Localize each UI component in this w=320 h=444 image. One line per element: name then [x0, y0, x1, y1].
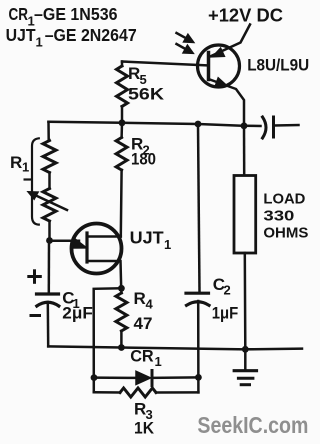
light arrow 2 [177, 44, 186, 49]
capacitor C2 bottom lead [197, 301, 200, 392]
svg-text:L8U/L9U: L8U/L9U [247, 57, 309, 75]
transistor Q1 collector arrow [213, 48, 225, 57]
wire: C2 top lead [198, 124, 200, 292]
node: emitter node on left rail [46, 237, 53, 244]
wire: output stub [275, 124, 299, 127]
svg-text:2: 2 [224, 283, 231, 298]
svg-text:R: R [134, 289, 146, 308]
resistor R1 variable section [43, 189, 56, 222]
load: top lead [243, 126, 246, 176]
node: R4 bottom junction [118, 344, 125, 351]
svg-text:180: 180 [131, 150, 156, 169]
svg-text:2μF: 2μF [62, 304, 92, 323]
svg-text:CR: CR [130, 347, 154, 366]
node: CR1 left junction [91, 374, 98, 381]
capacitor C1 bottom lead [47, 302, 50, 346]
capacitor output coupling: straight plate [272, 117, 275, 137]
resistor R1 fixed section [43, 141, 56, 173]
capacitor C1 curved plate [37, 302, 59, 306]
svg-text:4: 4 [146, 297, 154, 312]
wire: bottom rail [48, 346, 245, 349]
load: bottom lead [244, 253, 247, 349]
diode CR1 triangle [136, 371, 151, 384]
wire: top rail [49, 122, 245, 126]
wire: bottom rail right stub [245, 347, 302, 350]
ground [244, 349, 247, 369]
svg-text:–GE 1N536: –GE 1N536 [34, 4, 118, 24]
svg-text:R: R [10, 153, 22, 172]
UJT U1 base2 lead [87, 235, 121, 238]
svg-text:47: 47 [134, 314, 153, 333]
svg-text:1K: 1K [134, 419, 155, 438]
transistor Q1 emitter arrow [215, 78, 227, 86]
node: R5/R2 junction [119, 119, 126, 126]
light arrow 1 [177, 33, 187, 38]
resistor R4 [120, 288, 123, 293]
node: emitter/load junction [241, 122, 248, 129]
diode CR1 cathode wire [152, 376, 198, 379]
svg-text:+12V DC: +12V DC [208, 6, 283, 26]
load box 330 ohms [234, 176, 256, 254]
label R1 leader dash [25, 178, 31, 180]
rheostat arrow of R1 [36, 196, 67, 211]
svg-text:SeekIC.com: SeekIC.com [197, 412, 308, 438]
wire: base wire from R5 top to base bar [122, 62, 209, 66]
capacitor C2 curved plate [187, 302, 210, 306]
node: ground junction [242, 346, 249, 353]
wire: emitter wire to UJT [50, 240, 80, 243]
svg-text:UJT: UJT [6, 25, 36, 45]
svg-text:R: R [128, 64, 140, 83]
svg-text:UJT: UJT [130, 228, 164, 248]
transistor Q1 L8U/L9U phototransistor circle [198, 45, 240, 87]
svg-text:LOAD: LOAD [263, 190, 305, 207]
capacitor output coupling: left wire [244, 125, 261, 128]
capacitor C1 straight plate [37, 292, 59, 295]
node: C2 branch junction [195, 121, 202, 128]
capacitor C1 minus sign [31, 314, 40, 317]
node: CR1 right junction [195, 374, 202, 381]
capacitor output coupling: curved plate [263, 117, 267, 138]
resistor R5 [121, 62, 124, 67]
capacitor C1 top lead [48, 241, 51, 293]
svg-text:OHMS: OHMS [263, 224, 308, 241]
svg-text:330: 330 [263, 207, 294, 224]
transistor Q1 base bar [207, 53, 211, 80]
resistor R2 [120, 123, 123, 138]
wire: +12V lead to collector [209, 25, 250, 58]
svg-text:1: 1 [164, 237, 171, 252]
wire: B1 node left and down to CR1 [94, 288, 122, 392]
UJT U1 emitter arrow [73, 238, 87, 248]
svg-text:1: 1 [155, 354, 162, 369]
transistor Q1 emitter lead [209, 79, 245, 126]
svg-text:–GE 2N2647: –GE 2N2647 [45, 25, 137, 45]
svg-text:CR: CR [9, 4, 29, 24]
svg-text:56K: 56K [128, 84, 165, 103]
diode CR1 anode wire [94, 376, 136, 379]
UJT U1 base1 lead [87, 261, 121, 288]
capacitor C1 plus sign [29, 275, 41, 278]
svg-text:1μF: 1μF [212, 303, 239, 322]
svg-text:R: R [134, 400, 146, 419]
resistor R3 [120, 388, 156, 397]
wire: left rail top segment [47, 122, 50, 141]
svg-text:1: 1 [22, 160, 29, 175]
UJT U1 base bar [85, 233, 88, 262]
UJT U1 circle [72, 224, 122, 274]
bracket for R1 [32, 138, 39, 224]
node: B1/R4 junction [118, 285, 125, 292]
diode CR1 cathode bar [151, 371, 154, 386]
capacitor C2 straight plate [186, 292, 209, 295]
svg-text:1: 1 [36, 35, 43, 50]
